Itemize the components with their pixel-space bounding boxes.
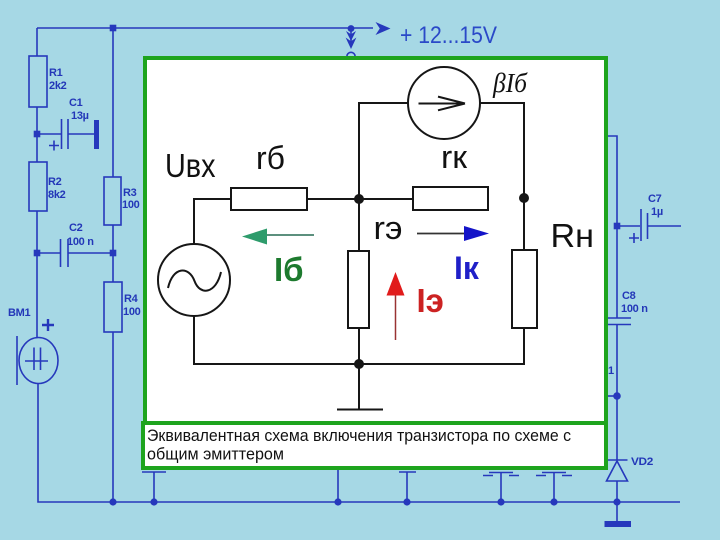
wire node A to R2 — [36, 137, 38, 162]
resistor R2 — [29, 162, 47, 211]
junction bottom rail x407 — [403, 498, 410, 505]
resistor rb — [231, 188, 307, 210]
svg-text:2k2: 2k2 — [49, 80, 67, 92]
wire collector node to right column — [604, 136, 617, 226]
resistor rk — [413, 187, 488, 210]
base node junction — [354, 194, 364, 204]
wire diode to ground rail — [616, 481, 618, 521]
wire R3 to node B2 — [112, 225, 114, 282]
junction bottom rail x554 — [550, 498, 557, 505]
microphone BM1 — [17, 336, 58, 385]
resistor re — [348, 251, 369, 328]
node C7 junction — [614, 223, 621, 230]
svg-text:Rн: Rн — [551, 217, 595, 254]
node junction top at R3 column — [110, 25, 117, 32]
svg-text:C2: C2 — [69, 222, 83, 234]
svg-text:100: 100 — [122, 199, 140, 211]
svg-text:C1: C1 — [69, 97, 83, 109]
resistor R4 — [104, 282, 122, 332]
node A junction — [34, 131, 41, 138]
svg-text:R3: R3 — [123, 187, 137, 199]
node B2 junction — [110, 250, 117, 257]
wire node D to diode — [616, 396, 618, 460]
svg-text:C8: C8 — [622, 290, 636, 302]
svg-text:R2: R2 — [48, 176, 62, 188]
stub hidden component pin x554 — [536, 472, 572, 502]
svg-text:rб: rб — [256, 140, 285, 176]
svg-text:1µ: 1µ — [651, 206, 663, 218]
generator Uvx (sine source) — [158, 244, 230, 316]
wire base node up to current source — [359, 103, 408, 199]
svg-text:Uвх: Uвх — [165, 147, 216, 184]
wire from rail down to R1 — [36, 28, 38, 56]
wire bottom rail of equivalent circuit — [194, 316, 524, 364]
svg-text:+ 12...15V: + 12...15V — [400, 22, 498, 49]
resistor R1 — [29, 56, 47, 107]
svg-text:100 n: 100 n — [67, 236, 94, 248]
diode VD2 — [607, 456, 654, 481]
junction bottom rail x154 — [150, 498, 157, 505]
wire re to emitter node — [358, 328, 360, 364]
svg-text:βIб: βIб — [492, 68, 528, 98]
ground equivalent circuit — [337, 364, 383, 410]
emitter node junction — [354, 359, 364, 369]
wire current source to collector node — [480, 103, 524, 197]
svg-text:100: 100 — [123, 306, 141, 318]
svg-text:13µ: 13µ — [71, 110, 89, 122]
svg-text:Iб: Iб — [274, 251, 304, 288]
current source beta-Ib — [408, 67, 480, 139]
wire R2 to node B — [36, 211, 38, 253]
wire R4 to ground rail — [112, 332, 114, 502]
svg-text:Iк: Iк — [454, 250, 480, 286]
wire R1 to node A — [36, 107, 38, 134]
current arrow Ib (green) — [242, 229, 314, 245]
resistor R3 — [104, 177, 121, 225]
collector node junction — [519, 193, 529, 203]
svg-text:R1: R1 — [49, 67, 63, 79]
current arrow Ik (blue) — [417, 226, 489, 241]
stub hidden component pin x501 — [483, 472, 519, 502]
svg-text:R4: R4 — [124, 293, 139, 305]
svg-text:1: 1 — [608, 365, 614, 377]
wire base node to re — [358, 199, 360, 251]
stub hidden component pin x407 — [399, 472, 416, 502]
wire collector node to Rn — [523, 198, 525, 250]
wire down-feed arrow to box — [346, 25, 357, 61]
capacitor C8 — [605, 290, 648, 325]
white panel with green border — [145, 58, 606, 423]
svg-text:общим эмиттером: общим эмиттером — [147, 446, 284, 464]
ground bar — [605, 521, 632, 527]
arrowhead supply rail right — [376, 22, 391, 35]
junction bottom rail at R4 column — [109, 498, 116, 505]
svg-text:C7: C7 — [648, 193, 662, 205]
wire node B down to microphone — [36, 253, 38, 337]
svg-text:Эквивалентная схема включения: Эквивалентная схема включения транзистор… — [147, 427, 571, 445]
junction bottom rail at VD2 column — [613, 498, 620, 505]
svg-text:Iэ: Iэ — [417, 282, 444, 319]
capacitor C2 — [37, 222, 113, 267]
svg-text:VD2: VD2 — [631, 456, 653, 468]
wire top supply rail — [37, 27, 373, 29]
plus polarity mark BM1 — [42, 319, 54, 331]
node D junction with stub — [605, 392, 621, 400]
current arrow Ie (red) — [387, 272, 405, 340]
junction bottom rail x338 — [334, 498, 341, 505]
wire C7 node down to C8 — [616, 226, 618, 318]
junction bottom rail x501 — [497, 498, 504, 505]
stub hidden component pin x154 — [142, 472, 166, 502]
wire rail down to R3 — [112, 28, 114, 177]
svg-text:8k2: 8k2 — [48, 189, 66, 201]
node B junction — [34, 250, 41, 257]
capacitor C7 — [617, 193, 681, 243]
svg-text:rк: rк — [441, 139, 468, 175]
resistor Rn — [512, 250, 537, 328]
wire rb to base node — [307, 198, 413, 200]
stub hidden component pin x338 — [337, 470, 339, 502]
svg-text:100 n: 100 n — [621, 303, 648, 315]
wire BM1 to ground rail — [38, 384, 680, 503]
svg-text:rэ: rэ — [374, 210, 403, 246]
wire C8 down to node D — [616, 324, 618, 396]
caption box — [143, 423, 606, 468]
capacitor C1 — [37, 97, 99, 151]
svg-text:BM1: BM1 — [8, 307, 31, 319]
wire generator top to rb — [194, 199, 231, 244]
